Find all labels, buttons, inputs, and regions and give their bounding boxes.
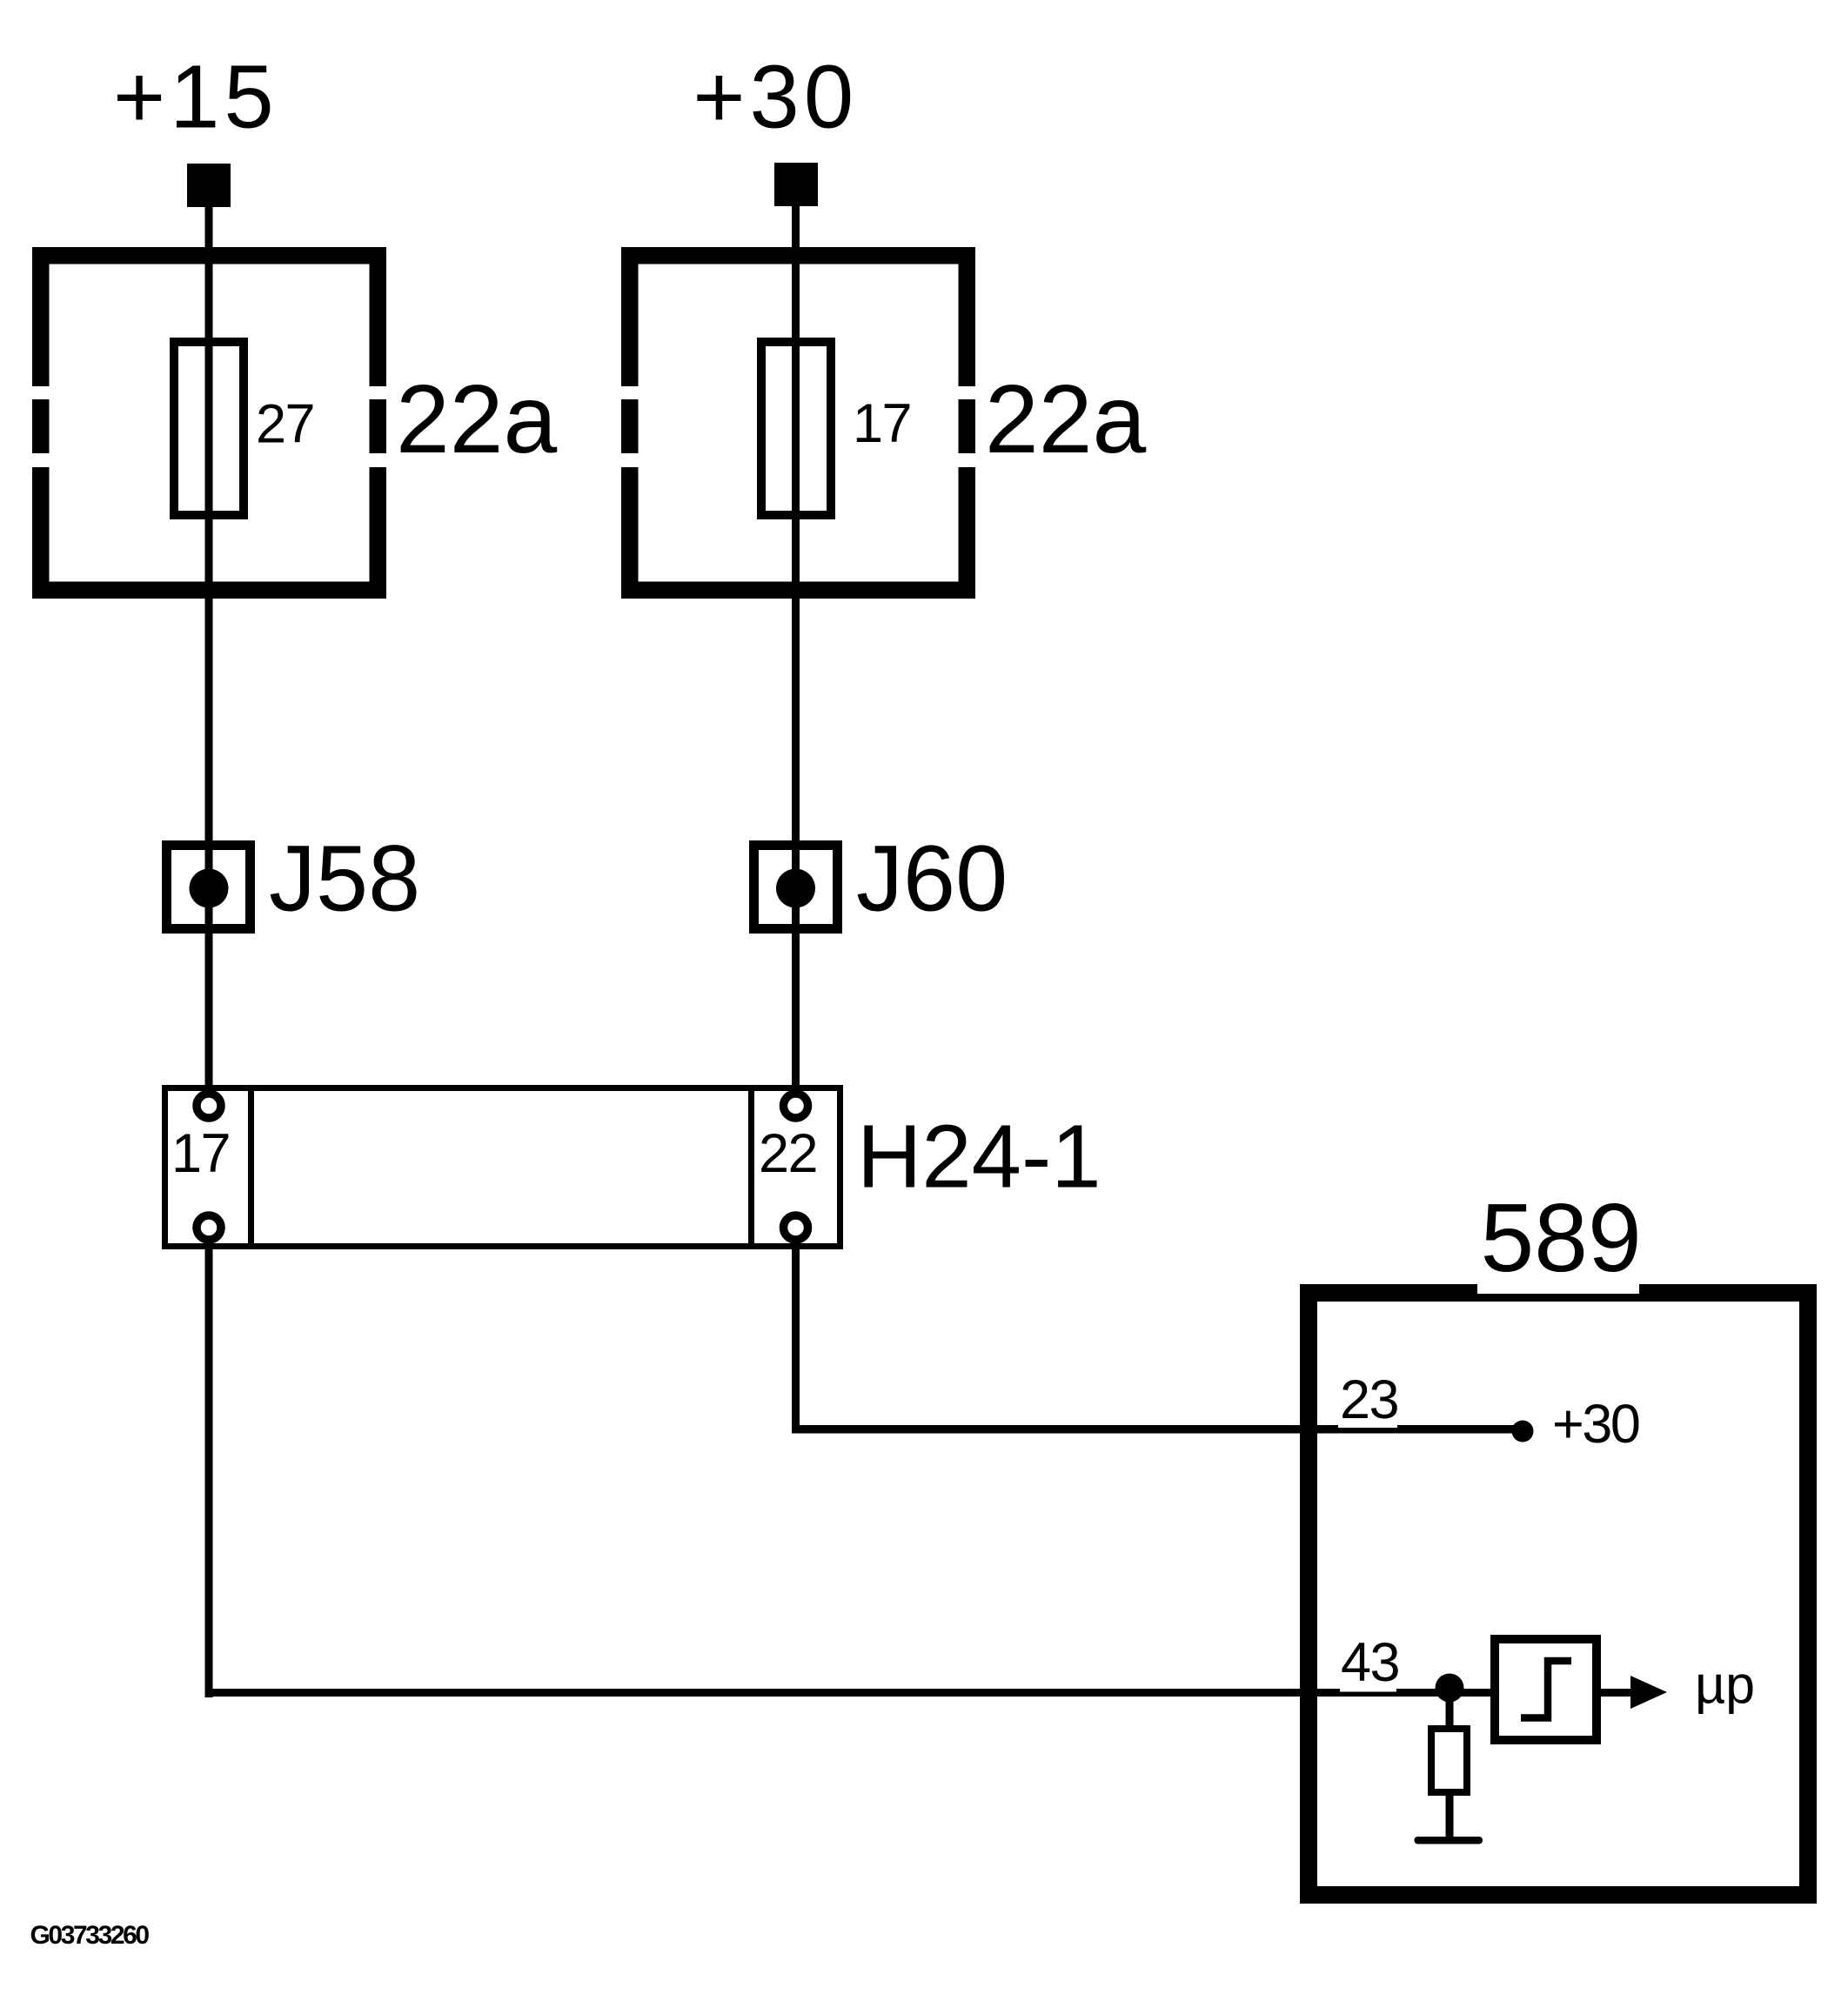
junction box J58 bbox=[167, 846, 251, 929]
connector H24-1 left compartment divider bbox=[248, 1085, 254, 1249]
junction box J60 bbox=[754, 846, 838, 929]
svg-text:J58: J58 bbox=[269, 826, 420, 931]
arrowhead to microprocessor bbox=[1630, 1676, 1667, 1709]
wire resistor to ground bbox=[1446, 1796, 1454, 1837]
connector pin socket 17 top bbox=[197, 1094, 221, 1118]
pin 43 junction dot bbox=[1436, 1674, 1464, 1703]
svg-text:H24-1: H24-1 bbox=[857, 1107, 1101, 1207]
power terminal square +15 bbox=[187, 164, 231, 207]
wire horizontal run to control unit pin 43 bbox=[205, 1689, 1492, 1697]
connector H24-1 body bbox=[165, 1088, 840, 1247]
svg-text:+30: +30 bbox=[693, 47, 858, 147]
Schmitt trigger box bbox=[1495, 1639, 1597, 1740]
wire from +30 terminal through fuse S17 to junction J60 and connector H24-1 pin 22 bbox=[792, 204, 800, 1091]
wire from H24-1 pin 17 down bbox=[205, 1242, 213, 1697]
svg-text:43: 43 bbox=[1341, 1632, 1399, 1693]
pull-down resistor bbox=[1431, 1729, 1467, 1792]
junction dot J60 bbox=[776, 869, 815, 908]
svg-text:+15: +15 bbox=[113, 47, 278, 147]
label knockout on top border bbox=[1477, 1284, 1639, 1294]
connector pin socket 17 bottom bbox=[197, 1215, 221, 1240]
svg-text:589: 589 bbox=[1481, 1184, 1642, 1292]
svg-text:17: 17 bbox=[171, 1123, 230, 1184]
control unit box 589 bbox=[1309, 1293, 1808, 1895]
svg-text:G03733260: G03733260 bbox=[30, 1921, 150, 1950]
svg-text:23: 23 bbox=[1340, 1369, 1398, 1430]
wire from +15 terminal through fuse S27 to junction J58 and connector H24-1 pin 17 bbox=[205, 205, 213, 1091]
connector pin socket 22 top bbox=[784, 1094, 808, 1118]
junction dot J58 bbox=[190, 869, 229, 908]
knockout under pin 23 label bbox=[1338, 1420, 1397, 1429]
svg-text:22a: 22a bbox=[985, 365, 1146, 473]
svg-text:µp: µp bbox=[1695, 1656, 1755, 1715]
svg-text:22a: 22a bbox=[396, 365, 557, 473]
svg-text:27: 27 bbox=[256, 394, 314, 455]
connector pin socket 22 bottom bbox=[784, 1215, 808, 1240]
ground bar bbox=[1415, 1837, 1483, 1844]
fuse element S17 bbox=[761, 342, 831, 515]
fuse box S27 dashed border bbox=[32, 247, 386, 599]
wire horizontal run to control unit pin 23 bbox=[792, 1425, 1523, 1434]
svg-text:17: 17 bbox=[853, 393, 911, 454]
svg-text:22: 22 bbox=[759, 1123, 817, 1184]
power terminal square +30 bbox=[774, 163, 818, 206]
wire Schmitt output bbox=[1601, 1689, 1631, 1697]
fuse element S27 bbox=[174, 342, 244, 515]
pin 23 internal node dot bbox=[1512, 1421, 1534, 1442]
Schmitt trigger step symbol bbox=[1521, 1661, 1571, 1718]
wire pin 43 node to pull-down resistor bbox=[1446, 1688, 1454, 1725]
connector H24-1 right compartment divider bbox=[748, 1085, 754, 1249]
wire from H24-1 pin 22 down bbox=[792, 1242, 800, 1434]
knockout under pin 43 label bbox=[1340, 1683, 1396, 1692]
fuse box S17 dashed border bbox=[621, 247, 975, 599]
svg-text:+30: +30 bbox=[1552, 1394, 1639, 1455]
svg-text:J60: J60 bbox=[856, 826, 1008, 931]
